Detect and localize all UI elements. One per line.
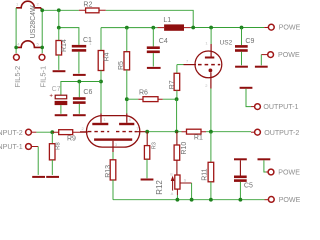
svg-text:C7: C7 xyxy=(52,86,61,93)
svg-text:C9: C9 xyxy=(245,38,254,45)
node junction C xyxy=(57,26,61,30)
wire R7 top to US2 grid xyxy=(177,64,184,66)
svg-text:R4: R4 xyxy=(104,52,111,61)
ground under R14 xyxy=(53,70,66,72)
svg-text:FIL5-2: FIL5-2 xyxy=(13,66,22,88)
svg-text:POWER2: POWER2 xyxy=(278,51,300,59)
node junction L (R6/R7) xyxy=(175,97,179,101)
node junction M (input) xyxy=(50,130,54,134)
resistor R8 xyxy=(51,132,53,144)
svg-text:S: S xyxy=(184,178,187,183)
US2 anode xyxy=(210,28,212,45)
tube US2 xyxy=(195,51,222,78)
wire row2 right segment with L1 xyxy=(101,27,158,29)
V1 right anode xyxy=(126,114,128,123)
svg-text:R11: R11 xyxy=(201,168,208,180)
svg-text:L1: L1 xyxy=(163,17,171,24)
V1 grids xyxy=(88,131,109,133)
svg-text:OUTPUT-2: OUTPUT-2 xyxy=(264,129,299,137)
resistor R5 xyxy=(126,28,128,52)
ground under C6 xyxy=(73,114,86,116)
V1 grid stubs xyxy=(80,131,146,133)
R12 wiper wire xyxy=(180,182,192,184)
node junction rail pot bottom xyxy=(176,198,180,202)
pad OUTPUT-1 xyxy=(251,106,254,108)
inductor L1 xyxy=(158,27,191,29)
V1 cathode xyxy=(94,138,132,140)
svg-text:INPUT-1: INPUT-1 xyxy=(0,143,23,151)
wire down to R10 node xyxy=(176,99,178,131)
node junction O (R10/R1) xyxy=(175,130,179,134)
svg-text:POWER4: POWER4 xyxy=(279,196,300,204)
svg-text:E: E xyxy=(170,171,173,176)
node junction N (R9) xyxy=(145,130,149,134)
node junction J (C6 tap) xyxy=(77,80,81,84)
svg-text:C6: C6 xyxy=(83,89,92,96)
svg-text:R9: R9 xyxy=(67,136,76,143)
svg-text:R10: R10 xyxy=(181,142,188,155)
svg-text:+: + xyxy=(49,94,53,100)
node junction rail R11 xyxy=(209,198,213,202)
capacitor C5 xyxy=(239,160,241,175)
resistor R9 (input series) xyxy=(52,131,86,133)
resistor R11 xyxy=(210,132,212,163)
svg-text:R2: R2 xyxy=(83,2,92,9)
wire bottom rail xyxy=(113,199,265,201)
node junction G (US2 anode) xyxy=(209,26,213,30)
resistor R10 xyxy=(176,132,178,146)
resistor R1 xyxy=(182,131,207,133)
svg-text:R14: R14 xyxy=(61,39,68,52)
pad INPUT-1 xyxy=(26,144,32,150)
wire US2 cathode down xyxy=(210,89,212,132)
node junction rail wiper xyxy=(190,198,194,202)
svg-text:R1: R1 xyxy=(194,135,203,142)
svg-text:US2: US2 xyxy=(220,39,233,46)
pad FIL5-2 xyxy=(14,54,20,60)
wire B down xyxy=(58,10,60,27)
ground under C9 xyxy=(235,66,248,68)
node junction bottom winding right xyxy=(40,46,44,50)
svg-text:C4: C4 xyxy=(159,38,168,45)
wire bypass row xyxy=(61,82,101,96)
wire R14 to gnd xyxy=(58,55,60,70)
potentiometer R12 xyxy=(175,175,180,189)
capacitor C9 xyxy=(241,28,243,46)
wire right filament rail xyxy=(41,10,43,53)
tube V1 envelope xyxy=(87,116,140,148)
wire R5 down to right anode xyxy=(126,70,128,114)
pad INPUT-2 xyxy=(26,129,32,135)
ground flipped OUTPUT-1 xyxy=(240,87,253,89)
R12 wiper arrow xyxy=(172,180,174,191)
pad POWER2 with ground xyxy=(268,52,274,58)
ground under R3 xyxy=(141,179,154,181)
node junction A xyxy=(40,8,44,12)
V1 left anode xyxy=(100,114,102,123)
US2 cathode xyxy=(209,69,213,73)
transformer TR1 winding top xyxy=(16,1,42,9)
svg-text:OUTPUT-1: OUTPUT-1 xyxy=(263,103,298,111)
svg-text:R7: R7 xyxy=(169,80,176,89)
pad OUTPUT-2 xyxy=(251,131,254,133)
capacitor C4 xyxy=(152,28,154,47)
node junction bottom winding left xyxy=(14,46,18,50)
node junction I (C7/C6 wire) xyxy=(99,80,103,84)
svg-text:R6: R6 xyxy=(139,89,148,96)
wire top row xyxy=(42,9,79,11)
svg-text:INPUT-2: INPUT-2 xyxy=(0,129,23,137)
pad FIL5-1 xyxy=(39,54,45,60)
svg-text:FIL5-1: FIL5-1 xyxy=(38,66,47,88)
resistor R13 xyxy=(112,152,114,160)
resistor R4 xyxy=(100,28,102,51)
wire left filament rail xyxy=(15,8,17,53)
ground under INPUT-1 xyxy=(32,176,45,178)
svg-text:R13: R13 xyxy=(105,165,112,178)
node junction rail C5 xyxy=(239,198,243,202)
svg-text:US28C4W: US28C4W xyxy=(30,5,37,38)
ground under C4 xyxy=(147,67,161,69)
ground under C7 xyxy=(55,114,68,116)
svg-text:C5: C5 xyxy=(244,183,253,190)
svg-text:R3: R3 xyxy=(151,142,157,149)
node junction F (L1 out) xyxy=(191,26,195,30)
ground under POWER2 xyxy=(255,66,268,68)
wire R14 branch xyxy=(58,28,60,41)
wire row2 left segment xyxy=(59,28,79,45)
resistor R6 xyxy=(127,98,177,100)
capacitor C1 xyxy=(72,45,86,48)
svg-text:R8: R8 xyxy=(55,142,61,150)
pad POWER3 xyxy=(266,171,268,173)
ground under C1 xyxy=(73,74,86,76)
ground flipped POWER3 xyxy=(258,158,271,160)
US2 grid dashes xyxy=(198,64,220,66)
node junction K (R6 left) xyxy=(125,97,129,101)
svg-text:R12: R12 xyxy=(155,180,164,195)
node junction E (C4) xyxy=(151,26,155,30)
node junction H (C9) xyxy=(240,26,244,30)
transformer TR1 winding bottom xyxy=(15,41,42,48)
node junction B xyxy=(57,8,61,12)
ground flipped above C5 xyxy=(234,158,247,160)
wire R4 down to anode wire xyxy=(100,71,102,114)
resistor R14 xyxy=(56,41,62,56)
resistor R7 xyxy=(176,65,178,74)
resistor R3 xyxy=(146,132,148,146)
wire R1 to output node xyxy=(206,131,251,133)
svg-text:POWER3: POWER3 xyxy=(278,169,300,177)
ground under R8 xyxy=(46,176,59,178)
pad POWER4 xyxy=(265,199,269,201)
wire grid row right xyxy=(146,131,182,133)
node junction D (R5) xyxy=(125,26,129,30)
R12 bottom to rail xyxy=(176,189,178,195)
wire C1 to gnd xyxy=(78,52,80,74)
resistor R2 xyxy=(79,9,106,11)
svg-text:POWER1: POWER1 xyxy=(279,24,300,32)
pad POWER1 xyxy=(264,27,268,29)
node junction P (output) xyxy=(209,130,213,134)
svg-text:R5: R5 xyxy=(118,61,125,70)
svg-text:A: A xyxy=(171,191,174,196)
